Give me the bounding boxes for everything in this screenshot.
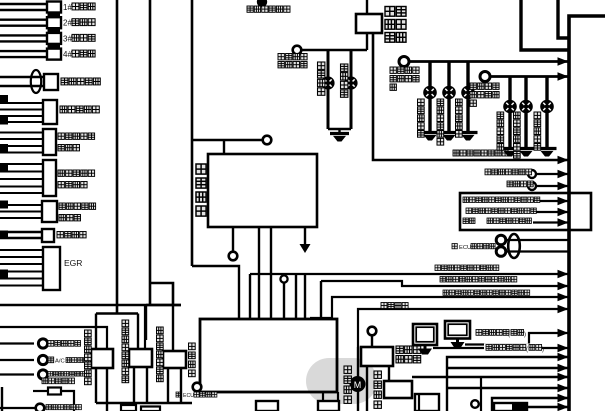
terminal: to A/C adjust resistor: [0, 370, 85, 379]
wiper motor pin 2: [258, 227, 260, 319]
fan low relay aux wire: [0, 327, 107, 349]
wire: wiper intermittent adjust knob signal: [310, 290, 569, 318]
right rear turn lamp: [534, 77, 557, 157]
clutch switch: [33, 378, 75, 411]
wire b4: [447, 384, 569, 392]
wire: front fog relay control to ECU: [373, 33, 569, 164]
combo pin b: [280, 275, 287, 319]
fan high relay1 pins: [134, 367, 147, 403]
injector 4 (cylinder 4 fuel injector): [0, 49, 95, 60]
right front turn lamp: [497, 77, 520, 157]
door ajar switch icon 1: [413, 324, 437, 355]
left front side turn lamp: [437, 62, 459, 146]
label box (heater controls): [460, 193, 591, 230]
wire: brake door switch (normally open): [465, 329, 569, 345]
wiper motor: [196, 141, 317, 227]
terminal: bottom left to ECU: [0, 387, 81, 412]
injector 1 (cylinder 1 fuel injector): [0, 2, 95, 18]
turn signal switch: [374, 366, 412, 408]
camshaft position sensor: [0, 129, 95, 155]
box bottom right: [494, 403, 527, 411]
wire b3: [412, 373, 569, 381]
svg-text:M: M: [354, 380, 362, 390]
coolant temperature sensor: [0, 201, 96, 222]
wire vertical feed x=117: [116, 0, 119, 314]
wire vertical feed x=150 with jog to relay3: [150, 0, 173, 305]
svg-text:(: (: [508, 332, 510, 338]
fan high speed relay 1: [122, 320, 152, 383]
combo pin d: [304, 274, 306, 319]
fan low relay feed: [95, 314, 97, 350]
wiper motor pin 3: [270, 227, 272, 319]
wire fog relay to indicator bus: [366, 33, 368, 50]
ECU box (right): [569, 16, 605, 411]
wire bus: left turn indicator (terminal to ECU): [390, 57, 569, 91]
terminal: to instrument front-fog indicator: [278, 46, 367, 68]
wire: mirror heater relay control: [466, 208, 569, 216]
fan high relay feed: [138, 305, 145, 349]
combo pins bottom: [323, 392, 338, 411]
wire: intermittent wipe interval & wash signal: [321, 277, 569, 291]
bottom small box 4: [318, 401, 339, 411]
fan low speed relay: [85, 330, 114, 385]
door ajar switch icon 2: [445, 321, 470, 348]
wire: horn relay coil negative: [250, 265, 569, 278]
wire feed x=558: [558, 0, 569, 38]
terminal: to parking lamp: [507, 181, 569, 190]
wire stub x=481: [480, 377, 482, 411]
fan low relay pins: [96, 368, 107, 411]
bottom small box 2: [141, 407, 160, 412]
fan high speed relay 2: [157, 327, 187, 382]
wiper motor pin with terminal circle: [229, 227, 238, 260]
svg-text:1#: 1#: [63, 3, 72, 12]
terminal circle bottom: [471, 400, 479, 408]
bottom small box 1: [121, 405, 136, 411]
horn switch label: [189, 343, 196, 377]
watermark blob: [306, 358, 377, 404]
left front turn lamp: [418, 62, 440, 141]
terminal: to rear fog lamp relay: [485, 169, 569, 178]
svg-text:(: (: [526, 347, 528, 353]
front fog lamp relay: [356, 0, 406, 42]
combo pin a: [249, 274, 251, 319]
ground for fog lamps: [328, 129, 351, 142]
svg-text:ECU: ECU: [183, 393, 194, 399]
high pressure fuel pump: [0, 229, 86, 242]
combo pin c: [295, 274, 297, 319]
wire feed x=521: [521, 0, 569, 50]
bottom bus: [96, 402, 192, 405]
rail pressure sensor: [0, 100, 99, 124]
wire bus y=305: [0, 304, 181, 307]
washer motor: [344, 347, 366, 411]
injector 2 (cylinder 2 fuel injector): [0, 17, 95, 33]
intake manifold pressure sensor: [0, 160, 95, 196]
wire: rear door switch (normally closed): [433, 344, 569, 354]
relay3 feed: [172, 305, 174, 351]
injector 3 (cylinder 3 fuel injector): [0, 33, 95, 49]
svg-text:EGR: EGR: [64, 258, 82, 268]
right front side turn lamp: [514, 77, 536, 159]
wire: rear window defroster relay control: [463, 197, 569, 205]
CAN pair: to ECU / instrument cluster: [452, 234, 569, 258]
svg-text:2#: 2#: [63, 19, 72, 28]
turn switch pins: [417, 398, 421, 411]
wire: washer switch: [358, 303, 569, 348]
svg-text:3#: 3#: [63, 34, 72, 43]
left front fog lamp: [318, 50, 335, 129]
combination switch box: [200, 319, 337, 392]
svg-text:A/C: A/C: [55, 359, 65, 365]
wiper motor pin with down arrow: [300, 227, 311, 253]
bottom small box 5: [415, 394, 439, 411]
terminal: to instrument cluster: [0, 339, 81, 348]
right front fog lamp: [341, 50, 358, 129]
terminal circle on wiper frame wire: [263, 136, 272, 145]
wire b5: [492, 394, 569, 411]
hazard warning switch: [361, 327, 421, 366]
terminal: to ECU main relay: [176, 383, 217, 399]
wire: mirror heat switch (reserved): [463, 218, 569, 227]
relay3 header: [146, 305, 181, 340]
wire b6: [527, 403, 569, 411]
bottom small box 3: [256, 401, 278, 411]
wire b2: [447, 364, 569, 372]
relay header: [96, 312, 138, 315]
hazard switch pin: [366, 366, 368, 411]
relay3 pins: [168, 368, 181, 403]
terminal: to main power switch: [247, 0, 290, 12]
speed sensor (crankshaft rpm sensor) with shielded-cable ellipse: [0, 70, 100, 93]
svg-text:): ): [542, 347, 544, 353]
wire bus: right turn indicator (terminal to ECU): [470, 72, 569, 107]
terminal: to A/C request switch: [0, 355, 89, 364]
wire vertical frame x=193: [192, 0, 262, 319]
combo pin e: [320, 281, 322, 319]
left-edge connector stubs: [0, 95, 8, 278]
wire b1: [447, 353, 569, 411]
svg-text:4#: 4#: [63, 50, 72, 59]
EGR valve: [0, 247, 82, 290]
svg-text:): ): [524, 332, 526, 338]
left rear turn lamp: [456, 62, 478, 141]
